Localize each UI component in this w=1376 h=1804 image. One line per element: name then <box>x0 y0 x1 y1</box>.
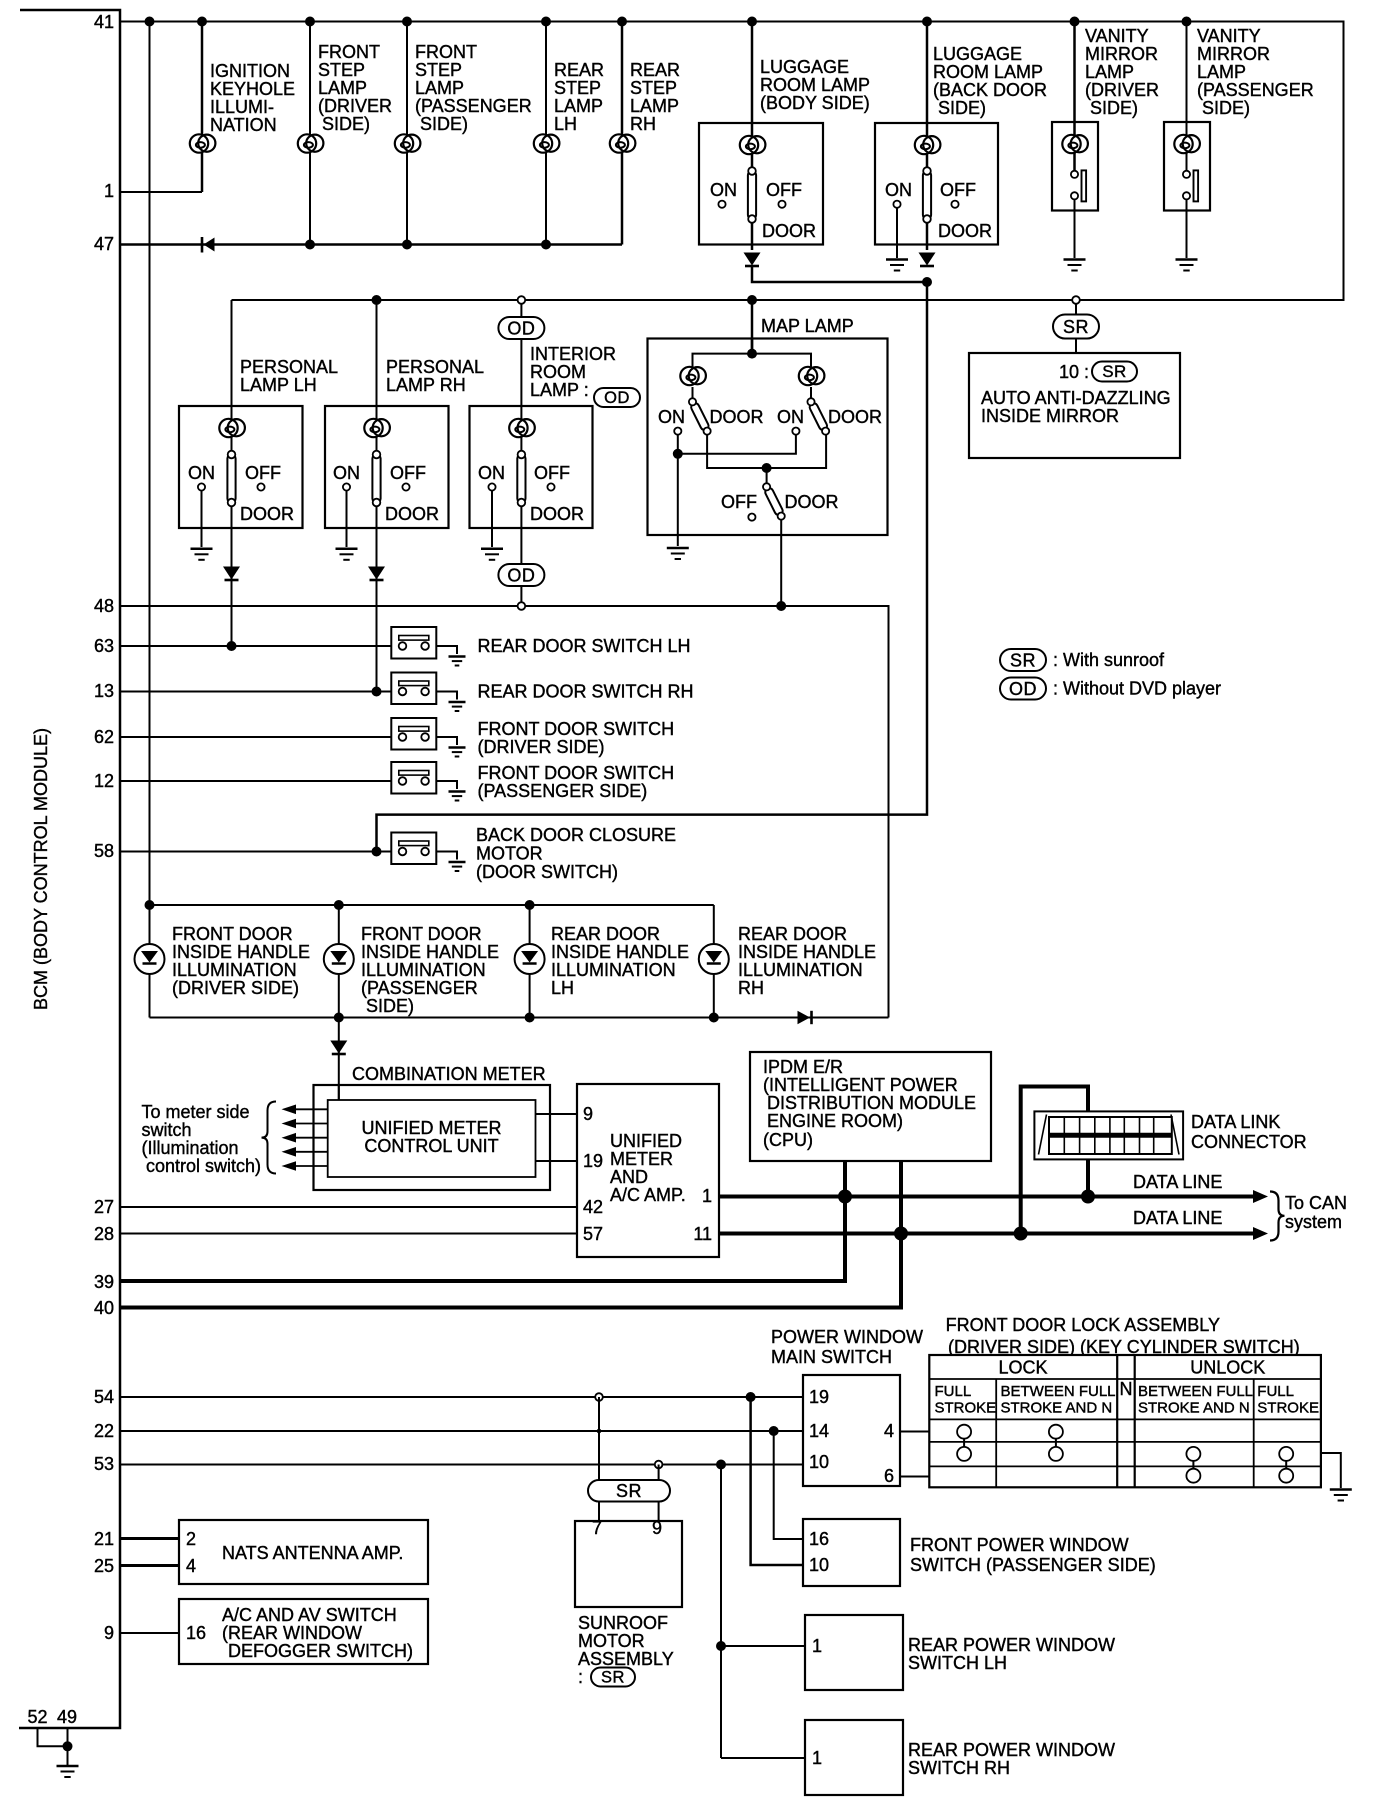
switch lever <box>372 451 380 507</box>
svg-text:SIDE): SIDE) <box>938 98 986 118</box>
svg-text:ILLUMINATION: ILLUMINATION <box>172 960 297 980</box>
wire column <box>713 905 715 1018</box>
wire pin 28 <box>120 1233 577 1235</box>
node ON bus <box>673 449 683 459</box>
wire DLC loop <box>1021 1087 1088 1234</box>
svg-text:1: 1 <box>812 1636 822 1656</box>
svg-text:DEFOGGER SWITCH): DEFOGGER SWITCH) <box>228 1641 413 1661</box>
A/C and AV switch box <box>179 1599 428 1664</box>
wire pin 41 bus <box>120 22 1344 301</box>
wire to rear RH <box>721 1757 805 1759</box>
wire pin 40 <box>120 1306 903 1310</box>
svg-text:(DOOR SWITCH): (DOOR SWITCH) <box>476 862 618 882</box>
svg-text:MOTOR: MOTOR <box>578 1631 645 1651</box>
svg-text:STEP: STEP <box>630 78 677 98</box>
svg-text:48: 48 <box>94 596 114 616</box>
wire table to ground <box>1321 1453 1341 1488</box>
svg-text:1: 1 <box>812 1748 822 1768</box>
svg-text:25: 25 <box>94 1556 114 1576</box>
svg-text:LAMP RH: LAMP RH <box>386 375 466 395</box>
front power window switch box <box>803 1519 900 1586</box>
svg-text:DOOR: DOOR <box>938 221 992 241</box>
ground interior room lamp <box>481 549 503 560</box>
svg-text:39: 39 <box>94 1272 114 1292</box>
svg-text:SIDE): SIDE) <box>322 114 370 134</box>
svg-text:control switch): control switch) <box>146 1156 261 1176</box>
svg-text:OFF: OFF <box>766 180 802 200</box>
SR bubble sunroof <box>588 1480 670 1502</box>
front door inside handle illumination (passenger side) <box>324 905 499 1018</box>
svg-text:(CPU): (CPU) <box>763 1130 813 1150</box>
svg-text:ON: ON <box>710 180 737 200</box>
svg-text:LH: LH <box>551 978 574 998</box>
node wire41/rear step LH <box>541 17 551 27</box>
node wire47/front step driver <box>305 240 315 250</box>
contact OFF <box>402 483 409 490</box>
svg-text:62: 62 <box>94 727 114 747</box>
contact lower <box>1071 192 1078 199</box>
svg-text:(DRIVER SIDE): (DRIVER SIDE) <box>172 978 299 998</box>
OD bubble upper <box>498 317 544 339</box>
wire down to row 48 <box>520 528 522 602</box>
svg-text:FRONT DOOR SWITCH: FRONT DOOR SWITCH <box>478 763 675 783</box>
wire column <box>545 22 547 245</box>
svg-text:REAR POWER WINDOW: REAR POWER WINDOW <box>908 1740 1115 1760</box>
contact OFF <box>547 483 554 490</box>
wire pin 22 <box>120 1430 803 1432</box>
svg-text:STROKE: STROKE <box>1257 1400 1319 1417</box>
node data1/DLC <box>1081 1190 1095 1204</box>
wire ON to ground <box>346 491 348 547</box>
svg-text:DOOR: DOOR <box>785 492 839 512</box>
node row13/personal RH <box>372 687 382 697</box>
svg-text:To meter side: To meter side <box>142 1102 250 1122</box>
svg-text:ON: ON <box>188 463 215 483</box>
node loop bottom x530 <box>525 1013 535 1023</box>
lamp box vanity driver <box>1052 122 1098 211</box>
diode on wire 47 <box>202 237 215 253</box>
svg-text:21: 21 <box>94 1529 114 1549</box>
svg-text:16: 16 <box>809 1529 829 1549</box>
switch lever <box>923 167 931 223</box>
ground front door switch driver <box>449 748 466 757</box>
ground vanity passenger <box>1176 260 1198 271</box>
BCM left bus vertical line <box>19 10 120 1728</box>
svg-text:ON: ON <box>333 463 360 483</box>
wire to rear LH <box>721 1645 805 1647</box>
key cylinder switch table <box>929 1355 1321 1487</box>
ground map lamp <box>667 548 689 559</box>
wire pin 12 <box>120 780 391 782</box>
svg-text:RH: RH <box>738 978 764 998</box>
contact pair unlock full stroke <box>1285 1454 1287 1476</box>
diode on loop bottom line <box>798 1011 812 1024</box>
svg-text:LOCK: LOCK <box>998 1358 1047 1378</box>
lamp map LH <box>680 367 706 385</box>
switch box personal LH <box>179 406 303 528</box>
svg-text:To CAN: To CAN <box>1285 1193 1347 1213</box>
svg-text:IGNITION: IGNITION <box>210 61 290 81</box>
node wire47/front step passenger <box>402 240 412 250</box>
switch box personal RH <box>325 406 449 528</box>
combination meter box <box>314 1085 551 1190</box>
svg-text:ROOM LAMP: ROOM LAMP <box>933 62 1043 82</box>
wire DOOR bus <box>707 435 826 468</box>
svg-text:DOOR: DOOR <box>710 407 764 427</box>
arrow data line 2 <box>1253 1227 1268 1240</box>
wire column <box>406 22 408 245</box>
node loop bottom x714 <box>709 1013 719 1023</box>
map lamp box <box>648 339 888 536</box>
contact ON <box>718 201 725 208</box>
wire loop bottom line <box>150 1017 889 1019</box>
OD bubble inline <box>594 388 640 407</box>
node wire41/ignition <box>197 17 207 27</box>
node row22/front PW <box>769 1426 779 1436</box>
lamp luggage room (body side) <box>740 136 766 154</box>
svg-text:52: 52 <box>27 1707 47 1727</box>
svg-text:DATA LINE: DATA LINE <box>1133 1208 1222 1228</box>
svg-text:COMBINATION METER: COMBINATION METER <box>352 1064 546 1084</box>
lamp personal RH <box>364 419 390 437</box>
svg-text:CONNECTOR: CONNECTOR <box>1191 1132 1307 1152</box>
wire column <box>1073 22 1076 177</box>
contact OFF <box>748 514 755 521</box>
svg-text:1: 1 <box>702 1186 712 1206</box>
svg-text:58: 58 <box>94 841 114 861</box>
svg-text:FULL: FULL <box>1257 1383 1294 1400</box>
svg-text:DOOR: DOOR <box>530 504 584 524</box>
svg-text:ON: ON <box>658 407 685 427</box>
arrow data line 1 <box>1253 1190 1268 1203</box>
svg-text:MOTOR: MOTOR <box>476 844 543 864</box>
LED rear door handle LH <box>515 944 545 974</box>
svg-text:OFF: OFF <box>940 180 976 200</box>
lamp map RH <box>799 367 825 385</box>
wire to back-door branch <box>752 266 927 282</box>
svg-text:40: 40 <box>94 1298 114 1318</box>
wire pin 47 <box>120 243 622 246</box>
node data1/IPDM <box>838 1190 852 1204</box>
contact ON2 <box>792 428 799 435</box>
svg-text:63: 63 <box>94 636 114 656</box>
LED front door handle driver <box>135 944 165 974</box>
wire bulb2 to switch <box>810 387 812 402</box>
svg-text:INSIDE MIRROR: INSIDE MIRROR <box>981 406 1119 426</box>
wire ON to ground <box>491 491 493 547</box>
svg-text:BETWEEN FULL: BETWEEN FULL <box>1138 1383 1253 1400</box>
svg-text:47: 47 <box>94 234 114 254</box>
svg-text:ON: ON <box>777 407 804 427</box>
node wrap/personal RH <box>372 295 382 305</box>
rear door inside handle illumination LH <box>515 905 689 1018</box>
contact upper <box>1183 171 1190 178</box>
svg-text:OFF: OFF <box>245 463 281 483</box>
contact ON <box>893 201 900 208</box>
svg-text:2: 2 <box>186 1529 196 1549</box>
svg-text:ILLUMINATION: ILLUMINATION <box>361 960 486 980</box>
rear step lamp RH branch <box>610 22 680 245</box>
node wire41/front step driver <box>305 17 315 27</box>
NATS antenna amp box <box>179 1520 428 1584</box>
switch lever <box>227 451 235 507</box>
svg-text:N: N <box>1120 1379 1133 1399</box>
svg-text:MIRROR: MIRROR <box>1197 44 1270 64</box>
svg-text:LAMP: LAMP <box>1197 62 1246 82</box>
svg-text:(BODY SIDE): (BODY SIDE) <box>760 93 870 113</box>
back door closure motor switch <box>391 833 436 865</box>
svg-text:16: 16 <box>186 1623 206 1643</box>
diode below luggage back lamp <box>919 253 936 267</box>
wire column <box>376 300 378 406</box>
svg-text:SWITCH RH: SWITCH RH <box>908 1758 1010 1778</box>
svg-text:10: 10 <box>809 1452 829 1472</box>
svg-text:SUNROOF: SUNROOF <box>578 1613 668 1633</box>
svg-text:REAR DOOR SWITCH RH: REAR DOOR SWITCH RH <box>478 682 694 702</box>
svg-text:(PASSENGER SIDE): (PASSENGER SIDE) <box>478 781 648 801</box>
diode feed combination meter <box>330 1041 347 1055</box>
svg-text:9: 9 <box>583 1104 593 1124</box>
wire column <box>1186 22 1188 177</box>
svg-text:DOOR: DOOR <box>385 504 439 524</box>
wire column <box>520 303 522 406</box>
node data2/DLC <box>1014 1227 1028 1241</box>
wire column <box>338 905 340 1018</box>
svg-text:SIDE): SIDE) <box>1090 98 1138 118</box>
node wire47/rear step LH <box>541 240 551 250</box>
svg-text::: : <box>578 1667 583 1687</box>
front door inside handle illumination (driver side) <box>135 905 311 1018</box>
svg-text:4: 4 <box>884 1421 894 1441</box>
svg-text:STROKE: STROKE <box>935 1400 997 1417</box>
node wrap/map lamp <box>747 295 757 305</box>
SR bubble <box>1053 315 1099 339</box>
svg-text:1: 1 <box>104 181 114 201</box>
svg-text:11: 11 <box>693 1224 712 1244</box>
wire sunroof pin7 <box>598 1397 600 1521</box>
wire pin 63 <box>120 645 391 647</box>
front step lamp driver side branch <box>298 22 392 245</box>
node loop top x339 <box>334 900 344 910</box>
svg-text:FRONT DOOR: FRONT DOOR <box>172 924 293 944</box>
wire stub <box>1075 303 1077 353</box>
svg-text:27: 27 <box>94 1197 114 1217</box>
svg-text:STEP: STEP <box>554 78 601 98</box>
svg-text:BCM (BODY CONTROL MODULE): BCM (BODY CONTROL MODULE) <box>31 728 51 1010</box>
svg-text:FRONT DOOR: FRONT DOOR <box>361 924 482 944</box>
svg-text:REAR DOOR: REAR DOOR <box>551 924 660 944</box>
wire IPDM to data line 1 <box>843 1161 847 1281</box>
wire ON bus <box>678 435 796 454</box>
lamp bus <box>693 354 812 375</box>
slide switch bar <box>1082 170 1087 201</box>
svg-text:REAR DOOR: REAR DOOR <box>738 924 847 944</box>
wire column <box>149 905 151 1018</box>
node row48/map lamp <box>776 601 786 611</box>
ground luggage back switch <box>886 260 908 271</box>
svg-text:STEP: STEP <box>415 60 462 80</box>
wire pin 52 <box>38 1728 68 1746</box>
ground BCM <box>57 1766 79 1777</box>
svg-text:LAMP: LAMP <box>415 78 464 98</box>
ground personal LH <box>191 549 213 560</box>
lamp rear step LH <box>534 134 560 152</box>
wire pin 1 <box>120 191 202 193</box>
svg-text:12: 12 <box>94 771 114 791</box>
svg-text:INSIDE HANDLE: INSIDE HANDLE <box>551 942 689 962</box>
wire pin 62 <box>120 736 391 738</box>
lamp luggage room (back door side) <box>915 136 941 154</box>
ground key cylinder <box>1330 1490 1352 1501</box>
svg-text:SIDE): SIDE) <box>366 996 414 1016</box>
wire pin 48 <box>120 606 889 1018</box>
mirror unit box <box>969 353 1180 458</box>
svg-text:NATION: NATION <box>210 115 277 135</box>
wire pin 21 <box>120 1537 179 1540</box>
svg-text:OD: OD <box>1009 679 1037 699</box>
wire data line 2 <box>719 1232 1254 1236</box>
svg-text:OD: OD <box>507 566 535 586</box>
svg-text:FRONT POWER WINDOW: FRONT POWER WINDOW <box>910 1535 1129 1555</box>
ground back door closure motor <box>449 862 466 871</box>
svg-text:MAP LAMP: MAP LAMP <box>761 316 854 336</box>
svg-text:STEP: STEP <box>318 60 365 80</box>
wire column <box>529 905 531 1018</box>
svg-text:DOOR: DOOR <box>240 504 294 524</box>
front door switch (driver side) <box>391 718 436 750</box>
svg-text:LUGGAGE: LUGGAGE <box>760 57 849 77</box>
ground rear door switch LH <box>449 657 466 666</box>
svg-text:53: 53 <box>94 1454 114 1474</box>
svg-text:13: 13 <box>94 681 114 701</box>
wire column <box>231 300 233 406</box>
brace to CAN <box>1270 1192 1285 1241</box>
svg-text:AND: AND <box>610 1167 648 1187</box>
svg-text:OFF: OFF <box>721 492 757 512</box>
switch lever <box>517 451 525 507</box>
svg-text:(DRIVER: (DRIVER <box>318 96 392 116</box>
svg-text:ROOM LAMP: ROOM LAMP <box>760 75 870 95</box>
svg-text:SR: SR <box>1010 651 1036 671</box>
diode below personal RH <box>368 567 385 581</box>
svg-text:(DRIVER SIDE): (DRIVER SIDE) <box>478 737 605 757</box>
svg-text:LAMP: LAMP <box>1085 62 1134 82</box>
contact lower <box>1183 192 1190 199</box>
wire column <box>309 22 311 245</box>
ignition keyhole illumination branch <box>120 22 295 193</box>
svg-text:UNLOCK: UNLOCK <box>1190 1358 1265 1378</box>
ground front door switch passenger <box>449 792 466 801</box>
svg-text:NATS ANTENNA AMP.: NATS ANTENNA AMP. <box>222 1543 403 1563</box>
svg-text:FULL: FULL <box>935 1383 972 1400</box>
node row54/front PW <box>746 1392 756 1402</box>
svg-text:CONTROL UNIT: CONTROL UNIT <box>364 1136 498 1156</box>
svg-text:LH: LH <box>554 114 577 134</box>
wire to ground <box>1186 199 1188 258</box>
lamp rear step RH <box>610 134 636 152</box>
OD legend bubble <box>1000 678 1046 700</box>
svg-text:10 :: 10 : <box>1059 362 1089 382</box>
wire sunroof pin9 <box>658 1465 660 1522</box>
svg-text:BETWEEN FULL: BETWEEN FULL <box>1001 1383 1116 1400</box>
node loop top x530 <box>525 900 535 910</box>
front door switch (passenger side) <box>391 762 436 794</box>
wire ON to ground <box>896 208 898 258</box>
svg-text:54: 54 <box>94 1387 114 1407</box>
svg-text:PERSONAL: PERSONAL <box>386 357 484 377</box>
contact ON <box>343 483 350 490</box>
rear door inside handle illumination RH <box>699 905 876 1018</box>
wire down to row 63 <box>231 528 233 646</box>
svg-text:DATA LINE: DATA LINE <box>1133 1172 1222 1192</box>
svg-text:LAMP: LAMP <box>554 96 603 116</box>
wire pin 9 <box>120 1632 179 1634</box>
wire to ground <box>436 852 457 860</box>
node data2/IPDM <box>894 1227 908 1241</box>
wire row53 drop <box>720 1465 722 1759</box>
front step lamp passenger side branch <box>395 22 532 245</box>
slide switch bar <box>1194 170 1199 201</box>
svg-text:INSIDE HANDLE: INSIDE HANDLE <box>361 942 499 962</box>
switch box luggage back door side <box>875 123 998 245</box>
svg-text:STROKE AND N: STROKE AND N <box>1001 1400 1113 1417</box>
svg-text:(REAR WINDOW: (REAR WINDOW <box>222 1623 362 1643</box>
contact OFF <box>951 201 958 208</box>
wire DLC bottom <box>1086 1158 1090 1197</box>
svg-text:AUTO ANTI-DAZZLING: AUTO ANTI-DAZZLING <box>981 388 1171 408</box>
svg-text:SWITCH (PASSENGER SIDE): SWITCH (PASSENGER SIDE) <box>910 1555 1156 1575</box>
power window main switch box <box>803 1375 900 1486</box>
svg-text:ILLUMINATION: ILLUMINATION <box>551 960 676 980</box>
wire loop top line <box>150 904 714 906</box>
lamp box vanity passenger <box>1164 122 1210 211</box>
svg-text:DATA LINK: DATA LINK <box>1191 1112 1280 1132</box>
wire IPDM to data line 2 <box>899 1161 903 1308</box>
node wire41/rear step RH <box>617 17 627 27</box>
svg-text:(Illumination: (Illumination <box>142 1138 239 1158</box>
svg-text:SR: SR <box>1063 317 1089 337</box>
svg-text:A/C AND AV SWITCH: A/C AND AV SWITCH <box>222 1605 397 1625</box>
node luggage join <box>922 277 932 287</box>
svg-text:IPDM E/R: IPDM E/R <box>763 1057 843 1077</box>
wire column <box>751 22 754 251</box>
lamp personal LH <box>219 419 245 437</box>
svg-text:A/C AMP.: A/C AMP. <box>610 1185 686 1205</box>
node wire41/vanity driver <box>1070 17 1080 27</box>
svg-text:ILLUMI-: ILLUMI- <box>210 97 274 117</box>
ground rear door switch RH <box>449 702 466 711</box>
svg-text:ON: ON <box>885 180 912 200</box>
svg-text:OFF: OFF <box>534 463 570 483</box>
switch box interior room lamp <box>470 406 593 528</box>
sunroof motor assembly box <box>575 1521 682 1607</box>
diode below luggage body lamp <box>744 253 761 267</box>
svg-text:FRONT: FRONT <box>415 42 477 62</box>
svg-text:MAIN SWITCH: MAIN SWITCH <box>771 1347 892 1367</box>
svg-text:DOOR: DOOR <box>762 221 816 241</box>
contact OFF <box>257 483 264 490</box>
lamp vanity mirror passenger <box>1174 135 1200 153</box>
wire pin 58 <box>120 851 391 853</box>
wire data line 1 <box>719 1195 1254 1199</box>
svg-text:LUGGAGE: LUGGAGE <box>933 44 1022 64</box>
node wire41/luggage back <box>922 17 932 27</box>
svg-text:INSIDE HANDLE: INSIDE HANDLE <box>172 942 310 962</box>
svg-text:(BACK DOOR: (BACK DOOR <box>933 80 1047 100</box>
wire bulb1 to switch <box>692 387 694 402</box>
svg-text:SIDE): SIDE) <box>1202 98 1250 118</box>
wire to ground <box>436 646 457 654</box>
